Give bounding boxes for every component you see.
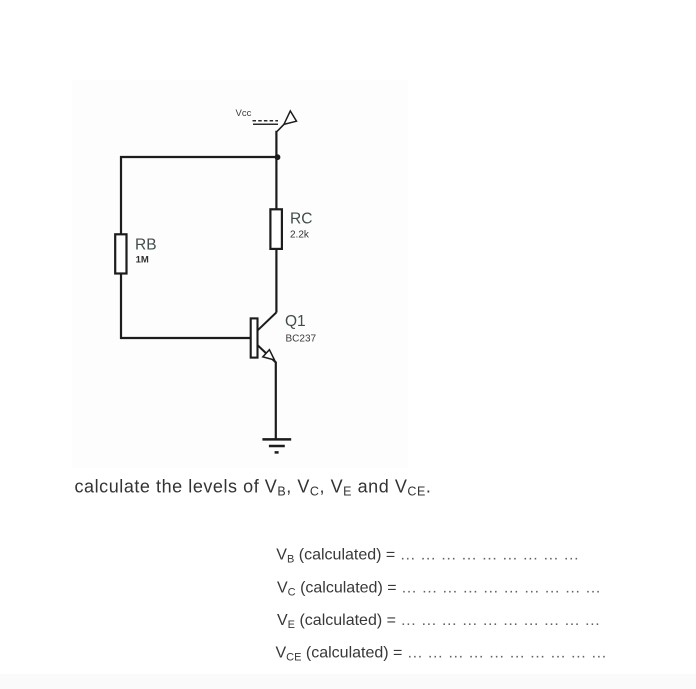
svg-text:RB: RB	[135, 236, 157, 253]
transistor Q1 collector lead	[258, 312, 277, 330]
wire: top horizontal from junction to left branch	[120, 156, 277, 158]
Vcc label	[236, 108, 252, 119]
resistor RC	[270, 209, 282, 249]
svg-text:BC237: BC237	[286, 333, 317, 344]
Vcc solid underline	[253, 123, 278, 125]
Vcc connector flag triangle	[284, 111, 297, 125]
svg-text:VE (calculated) = … … … … … …: VE (calculated) = … … … … … … … … … …	[277, 612, 600, 631]
transistor Q1 emitter arrow	[263, 350, 275, 360]
wire: emitter vertical to ground	[275, 362, 277, 440]
svg-text:VC (calculated) = … … … … … …: VC (calculated) = … … … … … … … … … …	[277, 579, 601, 598]
wire: Vcc stem down to junction and RC top	[275, 131, 277, 210]
ground bar 1	[262, 438, 291, 441]
transistor Q1 emitter lead	[258, 345, 276, 362]
wire: left vertical lower (RB bottom to base wire)	[120, 273, 122, 339]
wire: left vertical upper (to RB top)	[120, 156, 122, 235]
wire: base horizontal to transistor	[120, 337, 252, 339]
svg-text:2.2k: 2.2k	[290, 230, 310, 241]
svg-text:RC: RC	[290, 210, 312, 227]
transistor Q1 base bar	[251, 318, 258, 357]
node: junction dot at Vcc rail	[275, 154, 281, 160]
svg-text:VCE (calculated) = … … … … … …: VCE (calculated) = … … … … … … … … … …	[276, 645, 607, 664]
wire: collector vertical (RC bottom to transistor)	[275, 249, 277, 313]
Vcc dashed underline	[253, 120, 279, 122]
svg-text:Q1: Q1	[285, 313, 306, 330]
svg-text:1M: 1M	[136, 254, 149, 265]
resistor RB	[115, 234, 126, 273]
ground bar 3	[275, 451, 279, 454]
svg-text:VB (calculated) = … … … … … …: VB (calculated) = … … … … … … … … …	[276, 547, 579, 566]
Vcc connector tail wire	[277, 124, 284, 131]
svg-text:calculate the levels of VB, VC: calculate the levels of VB, VC, VE and V…	[75, 476, 432, 498]
ground bar 2	[269, 445, 285, 448]
svg-text:Vcc: Vcc	[236, 108, 252, 119]
